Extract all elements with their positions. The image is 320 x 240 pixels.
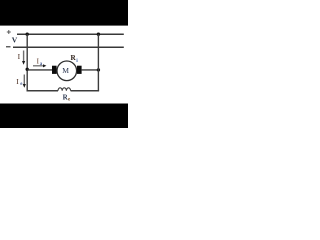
wire: right vertical (node B) bbox=[97, 34, 99, 91]
wire: lower (-) rail bbox=[13, 46, 124, 48]
node B junction dot bbox=[97, 68, 100, 71]
label Ri bbox=[71, 54, 79, 64]
motor brush left bbox=[52, 66, 57, 74]
svg-text:e: e bbox=[20, 82, 22, 87]
wire: to left brush bbox=[27, 69, 52, 71]
junction dot at motor branch bbox=[26, 68, 29, 71]
svg-text:V: V bbox=[12, 36, 18, 45]
wire: bottom right segment bbox=[71, 90, 100, 92]
field winding Re coil bbox=[58, 88, 71, 91]
wire: left vertical drop (node A) bbox=[26, 34, 28, 91]
motor M armature circle bbox=[57, 61, 77, 81]
current arrow Ia bbox=[33, 58, 46, 68]
label Re bbox=[63, 93, 71, 102]
node B top junction dot bbox=[97, 33, 100, 36]
wire: bottom left segment bbox=[27, 90, 59, 92]
source V plus terminal bbox=[7, 30, 11, 34]
current arrow I bbox=[18, 51, 26, 65]
node A junction dot bbox=[26, 33, 29, 36]
wire: top (+) rail bbox=[17, 33, 124, 35]
source V minus terminal bbox=[6, 46, 11, 48]
svg-text:M: M bbox=[62, 66, 69, 75]
motor brush right bbox=[77, 66, 82, 74]
wire: right brush to node B bbox=[82, 69, 99, 71]
current arrow Ie bbox=[16, 75, 26, 88]
background bbox=[0, 0, 128, 128]
